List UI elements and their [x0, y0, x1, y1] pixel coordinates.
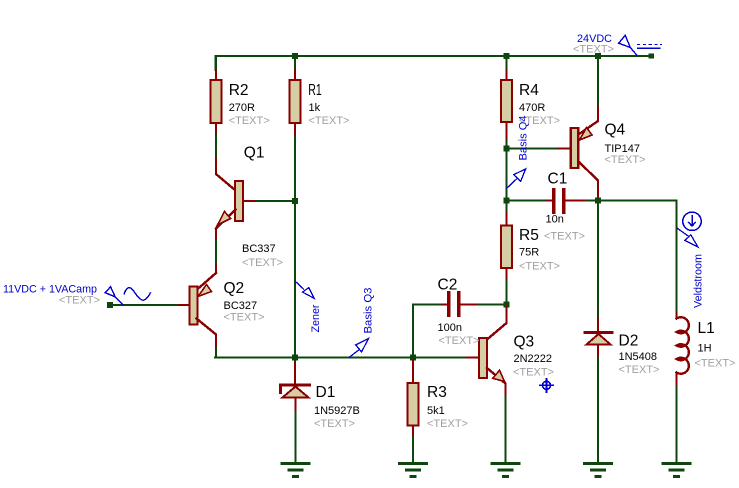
svg-text:R3: R3: [427, 384, 447, 401]
node junction rail-Q4: [595, 53, 601, 59]
svg-text:10n: 10n: [546, 214, 564, 226]
label D2: [619, 333, 660, 377]
svg-text:5k1: 5k1: [427, 405, 445, 417]
svg-text:1k: 1k: [309, 102, 321, 114]
ground for L1: [663, 464, 690, 477]
wire junction R4 down to C1 node: [505, 151, 507, 198]
wire Q3 emitter to ground: [504, 397, 506, 463]
node junction rail-R1: [292, 53, 298, 59]
svg-text:<TEXT>: <TEXT>: [519, 115, 560, 127]
ground for R3: [400, 464, 427, 477]
annotation arrow zener: [295, 281, 314, 298]
wire top rail corner down to R2: [215, 56, 217, 70]
label input 11VDC: [3, 284, 100, 307]
node junction bottom-R3: [410, 355, 416, 361]
label Q3: [513, 334, 554, 379]
wire bottom rail: [215, 356, 467, 358]
svg-text:Zener: Zener: [310, 304, 322, 332]
svg-text:1H: 1H: [698, 343, 712, 355]
svg-text:<TEXT>: <TEXT>: [309, 115, 350, 127]
wire L1 to ground: [675, 386, 677, 463]
label R5: [519, 227, 560, 273]
svg-text:Q2: Q2: [224, 280, 245, 297]
capacitor C1: [509, 199, 547, 201]
resistor R1: [294, 70, 296, 80]
node junction C2-Q3 collector-R5: [504, 302, 510, 308]
svg-text:<TEXT>: <TEXT>: [619, 364, 660, 376]
svg-text:C2: C2: [438, 277, 458, 294]
svg-text:1N5408: 1N5408: [619, 351, 658, 363]
svg-text:<TEXT>: <TEXT>: [573, 44, 614, 56]
transistor Q1: [215, 123, 217, 135]
wire R1 top drop: [294, 56, 296, 70]
node junction rail-R4: [503, 53, 509, 59]
label R2: [229, 82, 270, 127]
node endpoint input terminal: [107, 302, 113, 308]
node junction C1 right / D2 / Q4 collector: [595, 198, 601, 204]
svg-text:<TEXT>: <TEXT>: [224, 312, 265, 324]
svg-text:R2: R2: [229, 82, 249, 99]
svg-text:R1: R1: [308, 82, 322, 99]
capacitor C2: [413, 305, 442, 358]
inductor L1 lead top: [675, 202, 677, 312]
annotation arrow basis Q3: [349, 339, 369, 358]
svg-text:75R: 75R: [519, 247, 539, 259]
inductor L1 coil: [677, 317, 689, 373]
svg-text:470R: 470R: [519, 102, 545, 114]
label Q1: [242, 145, 283, 270]
svg-text:<TEXT>: <TEXT>: [513, 367, 554, 379]
wire D1 to ground: [294, 412, 296, 463]
wire D2 to ground: [597, 358, 599, 464]
svg-text:R5: R5: [519, 227, 539, 244]
label L1: [695, 320, 736, 370]
svg-text:<TEXT>: <TEXT>: [59, 295, 100, 307]
annotation input source flag: [105, 287, 124, 306]
svg-text:1N5927B: 1N5927B: [314, 405, 360, 417]
transistor Q4: [558, 147, 571, 149]
svg-text:Q1: Q1: [244, 145, 265, 162]
wire top rail: [216, 55, 651, 57]
svg-text:L1: L1: [698, 320, 715, 337]
transistor Q2: [197, 273, 217, 290]
svg-text:100n: 100n: [438, 322, 462, 334]
svg-text:270R: 270R: [229, 102, 255, 114]
wire R4 top drop: [505, 56, 507, 70]
wire Q1 emitter to Q2 collector: [215, 229, 217, 241]
transistor Q3: [487, 307, 507, 340]
annotation input sine wave: [124, 288, 151, 301]
svg-text:<TEXT>: <TEXT>: [695, 358, 736, 370]
annotation veldstroom circle arrow: [683, 212, 701, 230]
svg-text:<TEXT>: <TEXT>: [229, 115, 270, 127]
svg-text:D1: D1: [316, 384, 336, 401]
node junction R4-Q4 base: [504, 146, 510, 152]
svg-text:Q4: Q4: [605, 122, 626, 139]
label 24VDC: [573, 33, 614, 56]
annotation crosshair marker: [539, 378, 554, 393]
wire Q1 base to junction: [256, 200, 292, 202]
resistor R5: [505, 203, 507, 213]
svg-text:D2: D2: [619, 333, 639, 350]
svg-text:R4: R4: [519, 82, 539, 99]
svg-text:<TEXT>: <TEXT>: [605, 154, 646, 166]
wire zener net vertical (R1 to bottom rail): [294, 137, 296, 362]
diode D2 lead top: [597, 203, 599, 318]
annotation arrow basis Q4: [507, 169, 526, 189]
resistor R3: [412, 361, 414, 384]
label R4: [519, 82, 560, 127]
diode D1 zener: [281, 385, 310, 393]
node junction C1 left: [504, 198, 510, 204]
label D1: [314, 384, 360, 430]
ground for D2: [585, 464, 612, 477]
label Q4: [605, 122, 646, 167]
resistor R2: [215, 70, 217, 80]
wire Q4 emitter drop from rail: [597, 56, 599, 107]
ground for D1: [282, 464, 309, 477]
svg-text:Veldstroom: Veldstroom: [693, 254, 705, 308]
resistor R4: [505, 70, 507, 80]
ground for Q3: [492, 464, 519, 477]
label R3: [427, 384, 468, 430]
wire Q4 base net: [509, 147, 558, 149]
node junction bottom-D1: [292, 355, 298, 361]
label Q2: [224, 280, 265, 324]
svg-text:Basis Q3: Basis Q3: [363, 288, 375, 334]
wire R3 to ground: [412, 436, 414, 463]
svg-text:<TEXT>: <TEXT>: [427, 418, 468, 430]
label C2: [438, 277, 480, 348]
svg-text:<TEXT>: <TEXT>: [544, 231, 585, 243]
label R1: [308, 82, 349, 127]
svg-text:Q3: Q3: [514, 334, 535, 351]
svg-text:<TEXT>: <TEXT>: [519, 261, 560, 273]
wire R1 bottom lead: [294, 123, 296, 137]
node junction Q1 base to R1 line: [292, 198, 298, 204]
svg-text:BC337: BC337: [242, 243, 276, 255]
svg-text:BC327: BC327: [224, 300, 258, 312]
svg-text:<TEXT>: <TEXT>: [242, 257, 283, 269]
svg-text:<TEXT>: <TEXT>: [314, 418, 355, 430]
annotation arrow veldstroom: [677, 228, 698, 247]
svg-text:<TEXT>: <TEXT>: [439, 335, 480, 347]
wire input net: [111, 304, 177, 306]
annotation 24VDC power flag: [619, 35, 662, 55]
label C1: [544, 171, 585, 243]
diode D1 zener lead top: [294, 362, 296, 384]
wire C1 node to L1: [600, 199, 677, 201]
svg-text:2N2222: 2N2222: [514, 353, 553, 365]
svg-text:C1: C1: [548, 171, 568, 188]
node endpoint 24VDC terminal: [649, 53, 654, 58]
diode D2: [585, 331, 612, 334]
